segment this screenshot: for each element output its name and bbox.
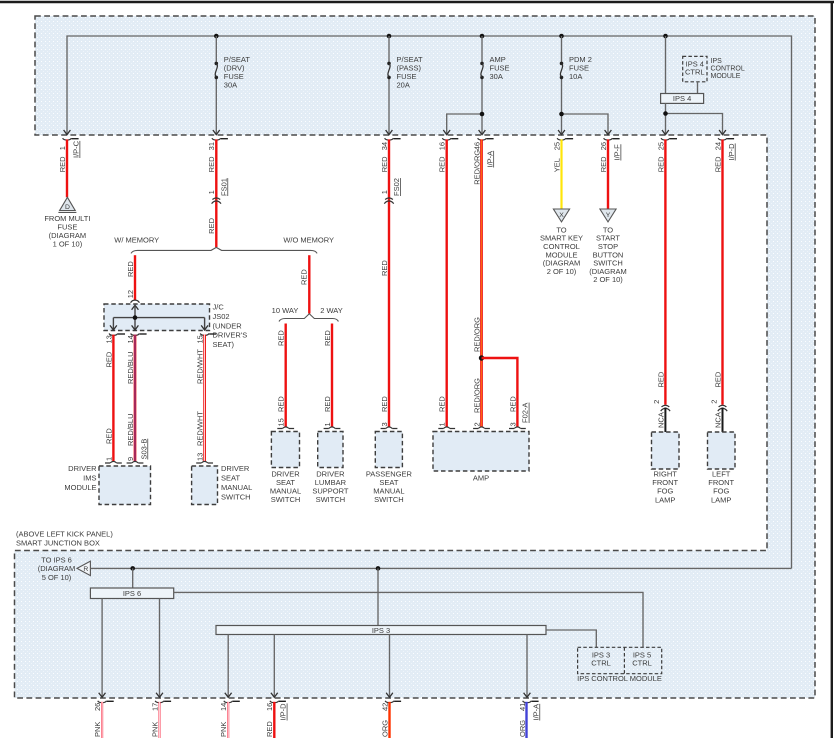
svg-text:RED/ORG: RED/ORG <box>472 317 481 352</box>
svg-text:1: 1 <box>438 422 447 426</box>
svg-text:13: 13 <box>104 335 113 343</box>
svg-text:1: 1 <box>58 146 67 150</box>
wire IPS3 to IPS3 ctrl <box>546 630 596 647</box>
wire RED to multi fuse triangle <box>66 139 68 197</box>
svg-text:15: 15 <box>196 335 205 343</box>
svg-text:FOG: FOG <box>713 487 729 496</box>
driver IMS module <box>110 461 117 463</box>
svg-text:RED: RED <box>265 721 274 737</box>
svg-text:FRONT: FRONT <box>652 478 678 487</box>
svg-text:SWITCH: SWITCH <box>374 495 404 504</box>
svg-text:17: 17 <box>150 703 159 711</box>
svg-text:PNK: PNK <box>150 722 159 737</box>
svg-text:I/P-A: I/P-A <box>531 704 540 721</box>
svg-text:26: 26 <box>599 142 608 150</box>
junction connector J/C JS02 <box>104 304 210 331</box>
svg-text:ORG: ORG <box>518 720 527 737</box>
svg-text:13: 13 <box>196 453 205 461</box>
svg-text:RED: RED <box>323 330 332 346</box>
svg-text:IPS 3: IPS 3 <box>372 626 390 635</box>
svg-text:CTRL: CTRL <box>685 68 705 77</box>
fuse PDM 2 10A <box>561 36 563 62</box>
svg-text:CONTROL: CONTROL <box>711 66 745 73</box>
svg-text:26: 26 <box>93 703 102 711</box>
svg-text:X: X <box>559 212 564 219</box>
svg-text:RED: RED <box>656 371 665 387</box>
inline connector FS01 pin 1 <box>212 198 220 200</box>
svg-text:RED: RED <box>713 156 722 172</box>
svg-text:MANUAL: MANUAL <box>221 483 252 492</box>
wire to IPS 3 <box>377 568 379 625</box>
svg-text:I/P-D: I/P-D <box>727 143 736 161</box>
wire RED/BLU JS02 pin14 to IMS pin9 <box>134 335 137 462</box>
right front fog lamp <box>652 432 680 469</box>
svg-text:DRIVER: DRIVER <box>221 464 250 473</box>
page border top <box>0 1 834 4</box>
svg-text:(ABOVE LEFT KICK PANEL): (ABOVE LEFT KICK PANEL) <box>16 530 113 539</box>
svg-text:3: 3 <box>380 422 389 426</box>
svg-text:IPS 6: IPS 6 <box>123 589 141 598</box>
wire RED/WHT JS02 pin15 to seat switch pin13 <box>203 335 206 462</box>
IPS 4 box <box>665 36 667 94</box>
svg-text:JS02: JS02 <box>213 312 230 321</box>
wire IPS4 ctrl to IPS 4 <box>697 82 699 94</box>
svg-text:LAMP: LAMP <box>655 495 675 504</box>
svg-text:30A: 30A <box>490 72 503 81</box>
node IPS6 tap <box>130 566 135 571</box>
svg-text:DRIVER'S: DRIVER'S <box>213 331 248 340</box>
connector exits at fuse strip border <box>64 130 71 135</box>
svg-text:RED/ORG: RED/ORG <box>472 378 481 413</box>
svg-text:SWITCH: SWITCH <box>316 495 346 504</box>
JS02 exit cups pins 13,14,15 <box>109 334 118 336</box>
svg-text:RED/BLU: RED/BLU <box>126 413 135 446</box>
svg-text:RED: RED <box>438 396 447 412</box>
node IPS3 tap <box>376 566 381 571</box>
wire RED pin 26 <box>607 139 609 209</box>
svg-text:14: 14 <box>126 335 135 343</box>
svg-text:42: 42 <box>380 703 389 711</box>
svg-text:10 WAY: 10 WAY <box>272 306 299 315</box>
bottom exit wires and labels <box>101 702 103 738</box>
svg-text:12: 12 <box>126 290 135 298</box>
svg-text:RED: RED <box>207 217 216 233</box>
wire NCA right fog <box>664 408 666 433</box>
svg-text:30A: 30A <box>224 81 237 90</box>
svg-text:RED: RED <box>104 428 113 444</box>
svg-text:RED/WHT: RED/WHT <box>196 349 205 384</box>
svg-text:RED: RED <box>277 396 286 412</box>
wires IPS3 outputs <box>227 635 229 698</box>
node fuse taps on bus <box>214 34 219 39</box>
left front fog lamp <box>708 432 736 469</box>
svg-text:25: 25 <box>552 142 561 150</box>
svg-text:I/P-A: I/P-A <box>485 151 494 168</box>
svg-text:I/P-D: I/P-D <box>279 703 288 721</box>
JS02 internal wires <box>134 305 136 317</box>
svg-text:MODULE: MODULE <box>64 483 96 492</box>
svg-text:RED: RED <box>380 396 389 412</box>
wire RED pin 24 to left fog lamp <box>721 139 723 404</box>
triangle Y (to start stop button switch) <box>600 209 616 222</box>
svg-text:PNK: PNK <box>93 722 102 737</box>
svg-text:DRIVER: DRIVER <box>68 464 97 473</box>
svg-text:MODULE: MODULE <box>711 73 741 80</box>
wire RED w/ memory branch <box>134 255 136 300</box>
svg-text:31: 31 <box>207 142 216 150</box>
svg-text:RED: RED <box>438 156 447 172</box>
svg-text:S03-B: S03-B <box>139 439 148 460</box>
svg-text:FOG: FOG <box>657 487 673 496</box>
svg-text:PNK: PNK <box>219 722 228 737</box>
connector exits at smart junction box border <box>99 693 106 698</box>
svg-text:YEL: YEL <box>552 158 561 172</box>
svg-text:IPS CONTROL MODULE: IPS CONTROL MODULE <box>577 674 662 683</box>
svg-text:1 OF 10): 1 OF 10) <box>53 239 83 248</box>
wire IPS6 to IPS5 ctrl <box>174 592 643 647</box>
JS02 entry cup pin 12 <box>131 300 140 303</box>
wire RED JS02 pin13 to IMS pin1 <box>112 335 114 462</box>
wire RED/ORG pin 46 to AMP pin 2 <box>480 139 483 427</box>
wires IPS6 outputs <box>101 599 103 698</box>
driver seat manual switch (10 way) <box>282 427 289 429</box>
svg-text:FRONT: FRONT <box>708 478 734 487</box>
node RED/ORG branch <box>479 355 484 360</box>
svg-text:D: D <box>65 204 70 211</box>
triangle X (to smart key control module) <box>553 209 569 222</box>
IPS 3 CTRL / IPS 5 CTRL dashed boxes <box>578 647 662 673</box>
svg-text:RED: RED <box>277 330 286 346</box>
wire branch from AMP fuse <box>447 114 482 135</box>
svg-text:(UNDER: (UNDER <box>213 321 243 330</box>
svg-text:16: 16 <box>265 703 274 711</box>
svg-text:2 OF 10): 2 OF 10) <box>547 267 577 276</box>
svg-text:2: 2 <box>652 400 661 404</box>
svg-text:FS01: FS01 <box>219 178 228 196</box>
svg-text:RED: RED <box>58 156 67 172</box>
svg-text:FS02: FS02 <box>392 178 401 196</box>
svg-text:IMS: IMS <box>83 474 96 483</box>
svg-text:25: 25 <box>656 142 665 150</box>
svg-text:SWITCH: SWITCH <box>221 492 251 501</box>
svg-text:RED: RED <box>656 156 665 172</box>
svg-text:RIGHT: RIGHT <box>654 469 678 478</box>
svg-text:J/C: J/C <box>213 303 225 312</box>
wire RED 2 way <box>331 324 333 427</box>
svg-text:SWITCH: SWITCH <box>271 495 301 504</box>
svg-text:RED: RED <box>508 396 517 412</box>
svg-text:1: 1 <box>380 190 389 194</box>
svg-text:RED: RED <box>323 396 332 412</box>
svg-text:LEFT: LEFT <box>712 469 731 478</box>
wire YEL pin 25 <box>560 139 562 209</box>
svg-text:RED: RED <box>599 156 608 172</box>
wire RED pin 34 <box>388 139 390 427</box>
wire RED pin 31 <box>215 139 217 247</box>
svg-text:LAMP: LAMP <box>711 495 731 504</box>
svg-text:SMART JUNCTION BOX: SMART JUNCTION BOX <box>16 539 100 548</box>
svg-text:I/P-F: I/P-F <box>613 144 622 161</box>
wire RED w/o memory branch <box>308 255 310 313</box>
bus wire (B+ feed) <box>67 36 792 568</box>
svg-text:RED: RED <box>126 261 135 277</box>
wire RED branch to AMP pin 3 <box>482 358 518 427</box>
svg-text:RED: RED <box>207 156 216 172</box>
svg-text:1: 1 <box>207 190 216 194</box>
way option brace <box>279 314 338 322</box>
svg-text:20A: 20A <box>397 81 410 90</box>
memory option brace <box>131 247 317 253</box>
wire IPS feed horizontal <box>90 567 791 569</box>
wire RED 10 way <box>285 324 287 427</box>
svg-text:RED/WHT: RED/WHT <box>196 411 205 446</box>
svg-text:RED: RED <box>380 260 389 276</box>
svg-text:15: 15 <box>277 418 286 426</box>
svg-text:Y: Y <box>606 212 611 219</box>
triangle D (from multi fuse) <box>60 197 76 210</box>
svg-text:W/ MEMORY: W/ MEMORY <box>114 235 159 244</box>
svg-text:2: 2 <box>472 422 481 426</box>
wire IPS 4 output <box>665 103 667 134</box>
svg-text:46: 46 <box>472 142 481 150</box>
wire branch from PDM 2 fuse <box>562 114 609 135</box>
IPS 3 box <box>216 626 546 635</box>
svg-text:W/O MEMORY: W/O MEMORY <box>283 235 334 244</box>
svg-text:RED: RED <box>104 351 113 367</box>
svg-text:16: 16 <box>438 142 447 150</box>
fuse P/SEAT (DRV) 30A <box>215 36 217 62</box>
AMP box <box>443 427 450 429</box>
svg-text:10A: 10A <box>569 72 582 81</box>
svg-text:IPS: IPS <box>711 58 723 65</box>
driver lumbar support switch <box>329 427 336 429</box>
svg-text:R: R <box>83 566 88 573</box>
IPS 6 box <box>90 588 173 599</box>
wire NCA left fog <box>722 408 724 433</box>
fuse AMP 30A <box>481 36 483 62</box>
svg-text:34: 34 <box>380 142 389 150</box>
IPS 4 CTRL dashed box <box>683 56 707 81</box>
svg-text:RED/BLU: RED/BLU <box>126 351 135 384</box>
passenger seat manual switch <box>386 427 393 429</box>
svg-text:SEAT): SEAT) <box>213 340 235 349</box>
svg-text:NCA: NCA <box>713 412 722 428</box>
svg-text:SEAT: SEAT <box>221 474 240 483</box>
inline connector right fog pin 2 NCA <box>662 405 670 407</box>
wire RED pin 25 to right fog lamp <box>664 139 666 404</box>
svg-text:2 OF 10): 2 OF 10) <box>593 275 623 284</box>
driver seat manual switch (memory) <box>201 461 208 463</box>
triangle R (to IPS 6) <box>77 561 90 575</box>
svg-text:41: 41 <box>518 703 527 711</box>
svg-text:2 WAY: 2 WAY <box>320 306 343 315</box>
svg-text:3: 3 <box>508 422 517 426</box>
svg-text:I/P-C: I/P-C <box>72 140 81 158</box>
svg-text:RED/ORG: RED/ORG <box>472 150 481 185</box>
inline connector left fog pin 2 NCA <box>719 405 727 407</box>
fuse P/SEAT (PASS) 20A <box>388 36 390 62</box>
svg-text:RED: RED <box>380 156 389 172</box>
svg-text:CTRL: CTRL <box>591 659 611 668</box>
svg-text:CTRL: CTRL <box>632 659 652 668</box>
svg-text:2: 2 <box>709 400 718 404</box>
svg-text:F02-A: F02-A <box>521 403 530 423</box>
svg-text:ORG: ORG <box>380 720 389 737</box>
wire RED pin 16 to AMP pin 1 <box>446 139 448 427</box>
page border right <box>831 1 833 738</box>
svg-text:1: 1 <box>104 457 113 461</box>
svg-text:5 OF 10): 5 OF 10) <box>42 573 72 582</box>
svg-text:24: 24 <box>713 142 722 150</box>
svg-text:IPS 4: IPS 4 <box>673 94 691 103</box>
svg-text:1: 1 <box>323 422 332 426</box>
svg-text:RED: RED <box>300 269 309 285</box>
svg-text:AMP: AMP <box>473 473 489 482</box>
svg-text:NCA: NCA <box>656 412 665 428</box>
wire to IPS 6 <box>132 568 134 588</box>
svg-text:9: 9 <box>126 457 135 461</box>
inline connector FS02 pin 1 <box>385 198 393 200</box>
svg-text:RED: RED <box>713 371 722 387</box>
svg-text:14: 14 <box>219 703 228 711</box>
